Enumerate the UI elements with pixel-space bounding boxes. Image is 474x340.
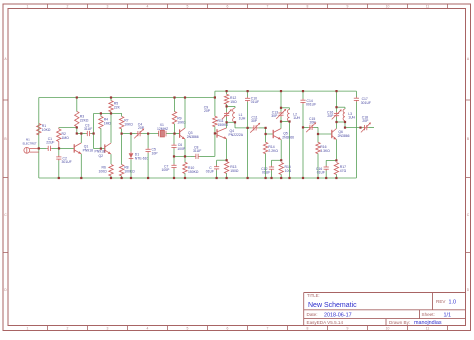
svg-text:Drawn By:: Drawn By: [389, 320, 410, 325]
junction J46 (58.8,178) [58, 177, 60, 179]
svg-text:1UH: 1UH [348, 115, 355, 119]
junction J45 (360.5,127.6) [359, 127, 361, 129]
junction J21 (131.0,133.6) [130, 133, 132, 135]
junction J38 (303.0,127.4) [302, 126, 304, 128]
junction J2 (111.0,97.5) [110, 96, 112, 98]
svg-text:Q2: Q2 [99, 154, 104, 158]
title block Date field [307, 312, 352, 318]
svg-text:REV: REV [436, 299, 446, 304]
junction J11 (38.8,148.4) [38, 147, 40, 149]
resistor R11 150K [213, 98, 229, 134]
wire C1 to Q1 base [59, 147, 74, 149]
wire emitter node to C8 [174, 155, 191, 157]
svg-text:2018-06-17: 2018-06-17 [324, 312, 352, 318]
svg-text:9: 9 [347, 5, 349, 9]
wire bottom ground rail [39, 177, 357, 179]
svg-text:1: 1 [27, 327, 29, 331]
transistor Q2 PN918 [95, 143, 112, 158]
svg-text:2.2KΩ: 2.2KΩ [268, 149, 278, 153]
svg-text:11: 11 [426, 5, 430, 9]
junction J17 (111.0,113.4) [110, 112, 112, 114]
svg-text:11: 11 [426, 327, 430, 331]
wire Q4 emitter down [226, 139, 228, 160]
junction J5 (214.9,97.5) [214, 96, 216, 98]
trimmer capacitor C13 30P [271, 108, 286, 122]
resistor R2 1M feedback [57, 128, 70, 149]
junction J27 (226.6,106.4) [226, 105, 228, 107]
junction J51 (148.1,178) [147, 177, 149, 179]
junction J10 (336.5,91.1) [335, 90, 337, 92]
svg-text:01UF: 01UF [262, 170, 270, 174]
junction J43 (345.0,122.0) [344, 121, 346, 123]
svg-text:10: 10 [386, 327, 390, 331]
trimmer capacitor C4 20P [134, 123, 145, 139]
svg-text:100P: 100P [177, 147, 186, 151]
junction J61 (303.0,178) [302, 177, 304, 179]
junction J3 (174.5,97.5) [173, 96, 175, 98]
wire L1 top lead [234, 106, 236, 108]
title block Drawn By field [389, 320, 442, 326]
junction J30 (226.6,160.2) [226, 159, 228, 161]
svg-text:150Ω: 150Ω [230, 169, 239, 173]
capacitor C5 10P [146, 134, 159, 178]
svg-text:30P: 30P [251, 119, 258, 123]
svg-text:1/1: 1/1 [444, 312, 452, 318]
svg-text:15Ω: 15Ω [230, 100, 237, 104]
svg-text:20P: 20P [204, 109, 211, 113]
resistor R17 47ohm [334, 163, 346, 179]
junction J22 (148.1,133.6) [147, 133, 149, 135]
resistor R3 22K [75, 98, 89, 134]
junction J23 (174.5,133.6) [173, 133, 175, 135]
junction J9 (303.0,91.1) [302, 90, 304, 92]
svg-text:ELECTRET: ELECTRET [23, 142, 37, 146]
svg-text:10KΩ: 10KΩ [124, 122, 133, 126]
inductor L2 1UH [288, 110, 301, 122]
junction J39 (318.0,134.0) [317, 133, 319, 135]
svg-text:8: 8 [307, 327, 309, 331]
junction J7 (247.6,91.1) [247, 90, 249, 92]
svg-text:6: 6 [227, 327, 229, 331]
junction J48 (111.0,178) [110, 177, 112, 179]
svg-text:5: 5 [187, 5, 189, 9]
svg-text:1MΩ: 1MΩ [62, 136, 70, 140]
svg-text:1.0: 1.0 [449, 299, 457, 305]
svg-text:301UF: 301UF [361, 101, 371, 105]
svg-text:1UH: 1UH [293, 116, 300, 120]
wire tank3 out drop [344, 122, 346, 128]
junction J59 (281.2,178) [280, 177, 282, 179]
capacitor C1 22UF [39, 137, 59, 151]
junction J14 (93.6,133.5) [93, 132, 95, 134]
svg-text:1: 1 [27, 5, 29, 9]
junction J47 (81.3,178) [80, 177, 82, 179]
junction J33 (281.0,107.8) [280, 107, 282, 109]
svg-text:01UF: 01UF [251, 100, 259, 104]
svg-text:Sheet:: Sheet: [422, 312, 435, 317]
junction J60 (289.5,178) [288, 177, 290, 179]
wire left edge [38, 98, 40, 179]
svg-text:20P: 20P [310, 121, 317, 125]
wire tank2 up to rail [280, 91, 282, 108]
capacitor C6 100P [171, 134, 186, 157]
resistor R7 10K [119, 113, 133, 133]
resistor R12 15ohm [224, 91, 237, 106]
svg-text:3: 3 [107, 5, 109, 9]
junction J44 (345.0,127.6) [344, 127, 346, 129]
junction J32 (265.6,127.9) [265, 127, 267, 129]
junction J55 (226.6,178) [226, 177, 228, 179]
svg-text:22KΩ: 22KΩ [80, 118, 89, 122]
trimmer capacitor C16t 20P [327, 107, 342, 122]
junction J64 (336.4,178) [335, 177, 337, 179]
wire Q1 collector up [80, 134, 82, 143]
svg-text:001UF: 001UF [306, 103, 316, 107]
svg-text:8: 8 [307, 5, 309, 9]
wire C3 node vertical [93, 113, 95, 148]
junction J18 (100.9,148.6) [100, 148, 102, 150]
capacitor C16 01UF [316, 160, 329, 178]
svg-text:7: 7 [267, 327, 269, 331]
junction J31 (247.6,127.9) [247, 127, 249, 129]
inductor L1 1UH [233, 108, 246, 122]
junction J62 (318.0,178) [317, 177, 319, 179]
crystal X1 12MHZ [157, 123, 168, 137]
junction J56 (247.6,178) [247, 177, 249, 179]
wire signal line crystal left [143, 133, 159, 135]
transistor Q5 2N3866 [273, 129, 294, 140]
wire Q6 emitter node [326, 159, 336, 161]
junction J52 (174.0,178) [173, 177, 175, 179]
wire R5 to Q2 collector [110, 113, 112, 142]
title block box [304, 293, 466, 326]
svg-text:20P: 20P [362, 119, 369, 123]
svg-text:5: 5 [187, 327, 189, 331]
transistor Q3 2N3866 [180, 128, 199, 139]
wire Q2 emitter down [110, 154, 112, 164]
svg-text:100KΩ: 100KΩ [124, 169, 135, 173]
wire top rail step up [214, 91, 216, 97]
svg-text:TITLE:: TITLE: [307, 293, 320, 298]
junction J40 (336.4,160.4) [335, 159, 337, 161]
junction J8 (281.0,91.1) [280, 90, 282, 92]
inductor L3 1UH [343, 109, 355, 121]
svg-text:New Schematic: New Schematic [308, 302, 357, 309]
wire tank2 drop to ground [289, 122, 291, 179]
svg-text:20P: 20P [327, 114, 334, 118]
svg-text:1MΩ: 1MΩ [104, 121, 112, 125]
svg-text:EasyEDA V5.5.14: EasyEDA V5.5.14 [307, 320, 344, 325]
svg-text:10: 10 [386, 5, 390, 9]
svg-text:2N3866: 2N3866 [282, 135, 294, 139]
trimmer capacitor C11 30P [250, 116, 260, 133]
capacitor C12 01UF [261, 160, 274, 178]
trimmer capacitor C18 20P [361, 116, 374, 133]
svg-text:10KΩ: 10KΩ [42, 128, 51, 132]
wire tank3 top [337, 106, 346, 108]
junction J28 (226.6,122.3) [226, 121, 228, 123]
trimmer capacitor C9 20P [204, 106, 232, 123]
resistor R16 3.3K [316, 134, 330, 178]
resistor R14 2.2K [263, 134, 278, 178]
wire stage2 coupling b [258, 127, 265, 129]
junction J13 (76.8,127.5) [76, 126, 78, 128]
svg-text:301UF: 301UF [62, 160, 72, 164]
resistor R6 100ohm [99, 165, 114, 179]
svg-text:1UH: 1UH [239, 117, 246, 121]
transistor Q4 PN2222A [217, 128, 244, 139]
wire Q4 collector [226, 122, 228, 128]
transistor Q6 2N3866 [332, 129, 350, 140]
wire tank2 bottom [281, 121, 290, 123]
svg-text:01UF: 01UF [317, 170, 325, 174]
title block TITLE field [307, 293, 357, 309]
junction J12 (59.0,148.4) [58, 147, 60, 149]
svg-text:6: 6 [227, 5, 229, 9]
svg-text:2: 2 [67, 5, 69, 9]
svg-text:3: 3 [107, 327, 109, 331]
junction J50 (131.0,178) [130, 177, 132, 179]
wire Q3 collector to rail [184, 98, 186, 129]
resistor R10 150K [183, 156, 199, 178]
junction J63 (326.2,178) [325, 177, 327, 179]
junction J57 (265.6,178) [265, 177, 267, 179]
wire Q6 emitter down [335, 140, 337, 161]
svg-text:22UF: 22UF [46, 141, 54, 145]
svg-text:PN918: PN918 [83, 148, 93, 152]
wire ground rail rise right [355, 127, 357, 178]
svg-text:2N3866: 2N3866 [338, 134, 350, 138]
junction J41 (336.5,107.2) [335, 106, 337, 108]
resistor R13 150ohm [224, 162, 238, 179]
wire output line [345, 127, 363, 129]
junction J36 (265.6,134.0) [265, 133, 267, 135]
wire top rail right section [215, 90, 357, 92]
resistor R4 1M [99, 113, 112, 148]
svg-text:31UF: 31UF [84, 127, 92, 131]
svg-text:3.3KΩ: 3.3KΩ [320, 149, 330, 153]
wire Q5 emitter down [280, 140, 282, 161]
wire tank3 up to rail [336, 91, 338, 107]
junction J34 (281.0,121.5) [280, 120, 282, 122]
wire R2 top to R3 node [59, 127, 77, 129]
wire Q3 emitter down [184, 139, 186, 156]
junction J25 (185.0,156.4) [184, 155, 186, 157]
wire tank3 bottom [337, 121, 346, 123]
svg-text:150KΩ: 150KΩ [188, 170, 199, 174]
junction J35 (289.5,121.5) [288, 120, 290, 122]
wire Q5 emitter node [272, 159, 282, 161]
svg-text:2: 2 [67, 327, 69, 331]
svg-text:7: 7 [267, 5, 269, 9]
wire C8 to Q4 base node [203, 155, 215, 157]
resistor R1 10K [37, 124, 51, 136]
wire L3 top lead [344, 107, 346, 109]
svg-text:12MHZ: 12MHZ [157, 127, 168, 131]
wire Q5 collector [280, 122, 282, 129]
resistor R15 10ohm [279, 163, 292, 179]
resistor R9 10K [172, 98, 186, 134]
svg-text:Date:: Date: [307, 312, 318, 317]
svg-text:PN2222A: PN2222A [229, 133, 244, 137]
microphone M1 ELECTRET [23, 138, 39, 154]
resistor R8 100K [119, 134, 135, 178]
wire oscillator signal line [122, 133, 136, 135]
svg-text:47Ω: 47Ω [340, 169, 347, 173]
junction J16 (100.9,113.4) [100, 112, 102, 114]
wire Q4 base node down [214, 133, 216, 156]
wire tank2 top [281, 107, 290, 109]
junction J49 (121.6,178) [121, 177, 123, 179]
junction J42 (336.5,122.0) [335, 121, 337, 123]
junction J37 (281.2,160.3) [280, 159, 282, 161]
wire L2 top lead [289, 108, 291, 110]
svg-text:30P: 30P [271, 114, 278, 118]
wire tank1 out drop [234, 122, 236, 128]
svg-text:31UF: 31UF [193, 149, 201, 153]
wire top rail left section [39, 97, 215, 99]
diode D1 NTE-610 [129, 134, 149, 178]
junction J58 (271.5,178) [270, 177, 272, 179]
svg-text:NTE-610: NTE-610 [135, 156, 149, 160]
title block EasyEDA version [307, 320, 344, 325]
capacitor C8 31UF [191, 146, 203, 160]
wire tank1 top [227, 105, 235, 107]
capacitor C2 301UF [56, 148, 71, 178]
junction J6 (226.6,91.1) [226, 90, 228, 92]
wire Q2 base line [94, 148, 105, 150]
svg-text:4: 4 [147, 5, 149, 9]
junction J29 (235.0,122.3) [234, 121, 236, 123]
wire Q6 base bend [318, 127, 331, 134]
svg-text:100P: 100P [162, 168, 171, 172]
svg-text:9: 9 [347, 327, 349, 331]
wire tank1 bottom [227, 121, 235, 123]
wire bias node horizontal [94, 112, 122, 114]
junction J24 (174.0,156.4) [173, 155, 175, 157]
wire C15 feed [303, 126, 309, 128]
transistor Q1 PN918 [74, 143, 93, 154]
svg-text:PN918: PN918 [95, 149, 105, 153]
svg-text:M1: M1 [26, 138, 30, 142]
capacitor C7 100P [162, 156, 177, 178]
junction J54 (216.6,178) [216, 177, 218, 179]
junction J20 (121.6,133.6) [121, 133, 123, 135]
junction J1 (76.8,97.5) [76, 96, 78, 98]
wire stage2 coupling [235, 127, 252, 129]
title block Sheet field [422, 312, 452, 318]
junction J19 (76.8,133.5) [76, 132, 78, 134]
svg-text:manojndias: manojndias [414, 320, 442, 326]
capacitor C3 31UF [77, 123, 94, 136]
trimmer capacitor C15 20P [306, 117, 318, 132]
wire Q4 emitter node [217, 159, 227, 161]
wire signal line crystal right [166, 133, 179, 135]
svg-text:4: 4 [147, 327, 149, 331]
svg-text:20P: 20P [138, 126, 145, 130]
wire Q6 collector [336, 122, 338, 129]
junction J15 (81.3,133.5) [80, 132, 82, 134]
junction J26 (214.9,133.4) [214, 132, 216, 134]
svg-text:22K: 22K [114, 106, 121, 110]
svg-text:10Ω: 10Ω [285, 169, 292, 173]
capacitor C17 301UF [354, 91, 371, 127]
svg-text:10P: 10P [152, 151, 159, 155]
wire Q5 base bend [266, 128, 273, 134]
title block REV field [436, 299, 456, 305]
resistor R5 22K [109, 98, 121, 114]
svg-text:01UF: 01UF [206, 170, 214, 174]
svg-text:2N3866: 2N3866 [187, 135, 199, 139]
junction J4 (185.0,97.5) [184, 96, 186, 98]
capacitor C 01UF [206, 160, 220, 178]
capacitor C14 001UF [300, 91, 316, 178]
junction J53 (185.0,178) [184, 177, 186, 179]
svg-text:100Ω: 100Ω [99, 169, 108, 173]
wire Q4 base stub [215, 132, 217, 134]
capacitor C10 01UF [245, 91, 259, 178]
wire Q1 emitter to ground [80, 154, 82, 178]
